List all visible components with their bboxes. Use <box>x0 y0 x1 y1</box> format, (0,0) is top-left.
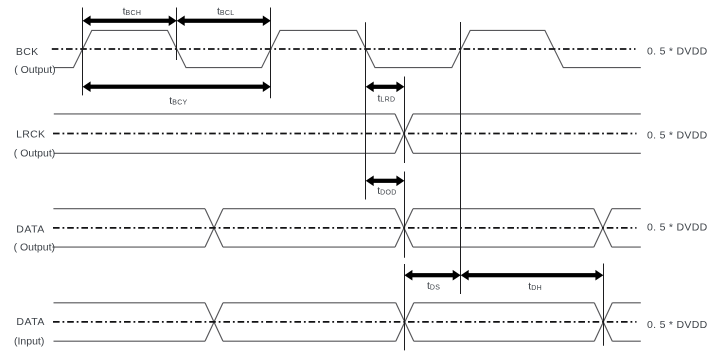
wire DATA output high line <box>53 208 640 210</box>
node LRCK transition X <box>395 114 413 153</box>
svg-text:0. 5 * DVDD: 0. 5 * DVDD <box>647 222 708 234</box>
dimension arrow tLRD <box>366 82 405 93</box>
node DATA output transition X2 <box>395 209 413 247</box>
dimension arrow tBCH <box>83 15 177 26</box>
svg-text:(Input): (Input) <box>14 335 44 347</box>
node DATA input transition X3 <box>594 303 612 341</box>
wire LRCK high line <box>54 113 641 115</box>
wire DATA input high line <box>54 302 641 304</box>
dimension arrow tDOD <box>366 176 405 187</box>
node BCK 0.5*DVDD threshold dash-dot line <box>52 48 636 50</box>
svg-text:DATA: DATA <box>16 224 44 236</box>
wire measurement reference line at BCK rising edge 3 <box>460 22 462 294</box>
svg-text:0. 5 * DVDD: 0. 5 * DVDD <box>647 319 708 331</box>
dimension arrow tBCL <box>177 15 271 26</box>
node DATA output transition X1 <box>205 209 223 247</box>
node DATA input transition X1 <box>205 303 223 341</box>
svg-text:( Output): ( Output) <box>14 148 55 160</box>
wire measurement reference line at BCK rising edge 1 <box>82 8 84 96</box>
svg-text:DATA: DATA <box>16 316 44 328</box>
node DATA output 0.5*DVDD threshold dash-dot line <box>53 227 637 229</box>
node DATA output transition X3 <box>594 209 612 247</box>
wire BCK waveform <box>54 30 641 67</box>
wire DATA input low line <box>54 340 641 342</box>
svg-text:BCK: BCK <box>16 46 39 58</box>
svg-text:( Output): ( Output) <box>14 64 55 76</box>
svg-text:LRCK: LRCK <box>16 128 45 140</box>
wire measurement reference line at LRCK/DATA transition <box>404 77 406 351</box>
dimension arrow tBCY <box>83 81 271 92</box>
dimension arrow tDH <box>461 270 604 281</box>
svg-text:( Output): ( Output) <box>14 241 55 253</box>
wire LRCK low line <box>54 152 641 154</box>
node LRCK 0.5*DVDD threshold dash-dot line <box>53 133 637 135</box>
wire measurement reference line at BCK rising edge 2 <box>270 8 272 99</box>
dimension arrow tDS <box>404 270 460 281</box>
wire DATA output low line <box>53 246 641 248</box>
wire measurement reference line at DATA input hold edge <box>603 264 605 346</box>
node DATA input 0.5*DVDD threshold dash-dot line <box>53 321 637 323</box>
wire measurement reference line at BCK falling edge 1 <box>176 8 178 61</box>
svg-text:0. 5 * DVDD: 0. 5 * DVDD <box>647 130 708 142</box>
svg-text:0. 5 * DVDD: 0. 5 * DVDD <box>647 46 708 58</box>
node DATA input transition X2 <box>396 303 414 341</box>
wire measurement reference line at BCK falling edge 2 <box>365 22 367 199</box>
